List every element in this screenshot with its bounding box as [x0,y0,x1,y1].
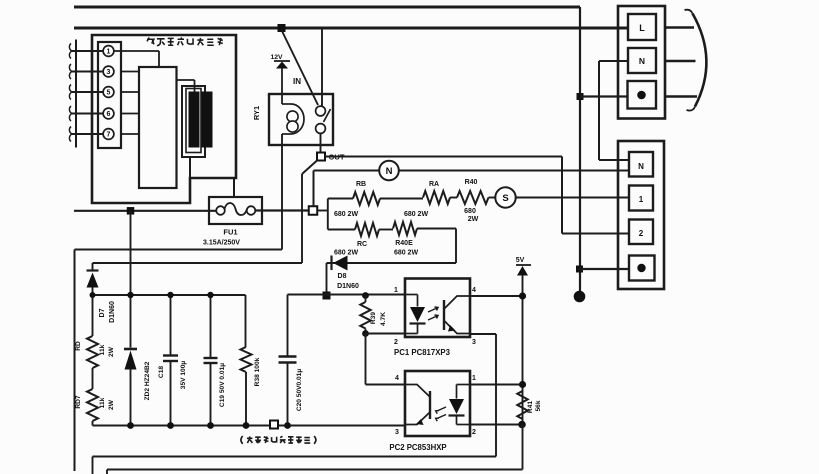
wire row1 c [450,197,457,199]
node N circle [379,161,399,181]
label PC1 PC817XP3 [394,348,451,357]
wire module to heater [177,80,195,92]
wire pin7 to module [121,133,139,135]
svg-text:4: 4 [472,287,476,294]
node OUT square [317,153,325,161]
wire entry lead 5 [69,127,102,142]
junction rail R38 [243,422,250,429]
svg-text:1: 1 [472,375,476,382]
resistor RA [423,191,450,204]
photocoupler PC2 box [405,371,470,436]
label R40 [465,179,478,186]
svg-text:PC2 PC853HXP: PC2 PC853HXP [389,443,446,452]
label R39 [370,312,377,324]
resistor R38 [241,347,252,372]
svg-text:R40E: R40E [395,240,413,247]
resistor RB [353,192,380,205]
svg-text:35V 100µ: 35V 100µ [180,361,187,390]
wire ground riser [579,7,581,296]
label R41 [527,401,534,413]
label C18 35V 100u [158,361,187,390]
5V supply arrow [516,265,531,276]
svg-text:1: 1 [107,49,111,56]
svg-text:R40: R40 [465,179,478,186]
wire PC1 pin2 to R39 [366,333,406,335]
12V supply arrow [274,61,290,69]
wire IN diagonal [282,30,319,105]
label D8 value D1N60 [337,283,359,290]
chassis ground blob [574,291,586,303]
label RY1 [252,106,261,120]
svg-text:680 2W: 680 2W [334,211,359,218]
PC1 phototransistor [444,296,470,334]
wire to CN1 earth terminal [580,95,627,97]
label 12V [270,54,283,61]
svg-text:2W: 2W [108,346,115,357]
wire row1 b [380,198,423,200]
wire row2 b [379,229,393,231]
junction rail C19 [207,422,214,429]
svg-text:RA: RA [429,181,439,188]
svg-text:680 2W: 680 2W [404,211,429,218]
photocoupler PC1 box [405,279,470,338]
svg-text:R38 100k: R38 100k [254,357,261,386]
junction R39 bottom [362,330,369,337]
svg-text:L: L [639,23,645,33]
wire neutral link CN1-CN2 [599,61,629,160]
connector CN1 outer box [618,6,665,119]
wire OUT to terminal2 run [325,157,629,234]
wire RD7 to rail [92,421,94,426]
wire S to terminal1 [516,197,629,199]
svg-text:RD7: RD7 [75,395,82,409]
junction C19/bus [207,292,213,298]
junction ZD2/bus [127,292,133,298]
label R40 value 2W [468,216,479,223]
svg-text:3: 3 [395,429,399,436]
cable hook earth [687,107,696,111]
svg-text:4.7K: 4.7K [380,312,387,326]
label FU1 [223,228,237,237]
wire entry lead 2 [69,64,102,79]
wire live bus [74,27,627,30]
label OUT [329,153,345,162]
wire left edge drop [74,250,76,472]
wire left entry bus [75,40,77,148]
svg-text:3.15A/250V: 3.15A/250V [203,240,240,247]
wire coil return [281,134,283,250]
label RD7 value 2W [108,399,115,410]
label RA value 680 2W [404,211,429,218]
zener ZD2 [124,349,137,426]
cluster unit box [92,35,236,203]
resistor R39 [360,296,370,334]
label RD value 2W [108,346,115,357]
cable hook L [685,10,693,14]
label ZD2 HZ24B2 [144,361,151,400]
wire D8 branch drop [326,263,328,296]
label IN [293,77,301,86]
junction bus/diode rail [90,292,96,298]
wire serial line [93,262,303,264]
wire L line top [74,6,580,9]
svg-text:RB: RB [356,181,366,188]
wire node riser [313,171,315,207]
junction rail C18 [167,422,174,429]
fuse FU1 symbol [216,203,255,215]
label R38 100k [254,357,261,386]
svg-text:D1N60: D1N60 [337,283,359,290]
svg-text:11k: 11k [99,397,106,408]
pin 1 circle [103,46,114,57]
svg-text:C20 50V0.01µ: C20 50V0.01µ [296,369,303,411]
wire 12V to coil [281,68,283,104]
wire ladder left rail [327,199,329,230]
wire CN1 N lead [599,60,627,62]
label cluster unit [147,38,223,46]
label RC [357,241,367,248]
svg-text:5V: 5V [516,257,525,264]
label C20 50V0.01u [296,369,303,411]
label D8 [338,273,347,280]
pin 3 circle [103,66,114,77]
svg-text:R41: R41 [527,401,534,413]
heater inner frame [186,89,201,153]
wire PC1 pin3 [470,334,496,457]
wire mains feed [74,210,217,212]
label RA [429,181,439,188]
pin 1 label PC2 [472,375,476,382]
wire R39 to PC2 pin4 [366,334,406,385]
terminal 1 [629,186,653,211]
label RD7 value 11k [99,397,106,408]
label C19 50V 0.01u [219,363,226,407]
wire neutral run [314,170,630,172]
wire to CN2 earth terminal [580,268,630,270]
connector CN2 outer box [618,141,664,289]
junction C18/bus [167,292,173,298]
diode D8 [332,256,348,271]
capacitor C20 [279,295,297,426]
terminal N (CN1) [628,48,656,73]
junction D8 branch / bus [323,292,331,300]
label RD7 [75,395,82,409]
junction CN2 ground tap [576,266,583,273]
wire PC2 pin2 to R41 [470,424,523,426]
wire R40 to S [489,197,496,199]
connector strip [98,42,121,148]
wire entry lead 1 [69,44,102,59]
junction R41 bottom [518,421,526,429]
capacitor C18 [163,295,178,426]
label PC2 PC853HXP [389,443,446,452]
wire contact to OUT [320,134,322,153]
terminal 2 [629,220,653,245]
node S circle [495,187,515,207]
resistor RD7 [87,389,98,421]
svg-text:PC1 PC817XP3: PC1 PC817XP3 [394,348,451,357]
fuse FU1 box [209,197,262,224]
svg-text:680 2W: 680 2W [394,250,419,257]
junction square on live bus [278,24,286,32]
wire 5V rail [522,275,524,425]
wire heater to fuse [190,157,234,197]
pin 6 circle [103,108,114,119]
svg-text:5: 5 [107,90,111,97]
wire R38 to rail [245,372,247,426]
wire ZD2 branch [130,211,132,348]
label D7 [99,308,106,317]
wire earth to cable [665,95,697,97]
svg-text:FU1: FU1 [223,228,237,237]
pin 4 label PC2 [395,375,399,382]
wire pin6 to module [121,113,139,115]
diode D7 [87,263,99,336]
wire serial out 1 [93,457,497,474]
terminal L [628,14,656,40]
PC2 phototransistor [405,385,430,426]
PC1 led [405,295,426,334]
svg-text:C19 50V 0.01µ: C19 50V 0.01µ [219,363,226,407]
wire dc bus left [93,294,246,296]
node AC input square [309,206,318,215]
wire PC1 pin4 to 5V [470,295,523,297]
wire node to ladder [317,210,328,212]
label RB [356,181,366,188]
wire row1 a [328,198,353,200]
svg-text:2: 2 [394,339,398,346]
wire serial out 2 [107,425,523,474]
wire coil return to left edge [75,249,283,251]
pin 7 circle [103,129,114,140]
svg-text:6: 6 [107,111,111,118]
wire fuse to node [255,209,309,211]
pin 2 label PC2 [472,429,476,436]
svg-text:3: 3 [107,69,111,76]
svg-text:ZD2 HZ24B2: ZD2 HZ24B2 [144,361,151,400]
junction rail ZD2 [127,422,134,429]
terminal earth (CN2) [629,256,655,281]
label 5V [516,257,525,264]
svg-text:D7: D7 [99,308,106,317]
wire entry lead 3 [69,85,102,100]
label RD [75,341,82,351]
svg-text:2: 2 [472,429,476,436]
label fuse rating 3.15A/250V [203,240,240,247]
junction 5V/pin4 [519,292,526,299]
label serial circuit [241,436,316,444]
svg-text:680: 680 [464,208,476,215]
resistor RD [87,336,98,368]
heater outer frame [182,86,205,157]
heater bar right [202,92,212,147]
resistor RC [355,223,379,236]
svg-text:RD: RD [75,341,82,351]
svg-text:N: N [639,56,645,66]
svg-text:1: 1 [394,287,398,294]
resistor R40E [393,222,417,235]
wire N to cable [665,60,696,62]
wire pin3 to module [121,71,139,73]
junction R39 top [362,292,369,299]
PC2 led [449,385,471,425]
wire entry lead 4 [69,106,102,121]
svg-text:3: 3 [472,339,476,346]
junction 5V/pin1 [519,381,526,388]
relay RY1 box [269,94,333,145]
capacitor C19 [204,295,218,426]
svg-text:IN: IN [293,77,301,86]
svg-text:12V: 12V [270,54,283,61]
wire L to cable [665,26,694,28]
PC2 light arrows [436,407,446,421]
svg-text:D1N60: D1N60 [109,301,116,323]
svg-text:2W: 2W [108,399,115,410]
wire D8 line [327,262,457,264]
pin 5 circle [103,87,114,98]
pin 2 label PC1 [394,339,398,346]
wire arm drop diagonal [302,161,317,175]
wire RD-RD7 [92,368,94,389]
PC1 light arrows [428,307,438,320]
svg-text:680 2W: 680 2W [334,250,359,257]
svg-text:D8: D8 [338,273,347,280]
resistor R41 [517,391,527,419]
node serial tap square [270,421,278,429]
wire row2 a [328,229,355,231]
svg-text:7: 7 [107,132,111,139]
relay contact upper [316,106,326,116]
pin 1 label PC1 [394,287,398,294]
label D7 value D1N60 [109,301,116,323]
junction fuse line / ZD2 branch [127,207,135,215]
relay coil [282,104,304,134]
svg-text:2W: 2W [468,216,479,223]
svg-text:C18: C18 [158,366,165,378]
pin 3 label PC2 [395,429,399,436]
svg-text:N: N [386,166,393,177]
svg-text:RY1: RY1 [252,106,261,120]
wire pin5 to module [121,91,139,93]
pin 3 label PC1 [472,339,476,346]
wire live to contact [321,28,323,107]
wire arm drop [301,174,303,263]
svg-text:11k: 11k [99,344,106,355]
wire ground rail [93,425,406,427]
svg-text:4: 4 [395,375,399,382]
svg-text:56k: 56k [535,400,542,411]
svg-text:S: S [502,193,508,204]
svg-text:N: N [638,162,644,171]
pin 4 label PC1 [472,287,476,294]
wire row2 to corner [417,229,456,264]
label R40E value 680 2W [394,250,419,257]
wire R38 branch [245,295,247,347]
label RD value 11k [99,344,106,355]
label R40 value 680 [464,208,476,215]
resistor R40 [457,191,488,204]
label RC value 680 2W [334,250,359,257]
relay contact lower [316,124,326,134]
junction rail C20 [284,422,291,429]
relay arm tick [324,109,331,122]
wire PC2 pin1 to 5V rail [470,384,523,386]
svg-text:2: 2 [639,229,644,238]
heater bar left [189,92,199,147]
svg-text:RC: RC [357,241,367,248]
terminal N (CN2) [629,152,653,177]
label R40E [395,240,413,247]
junction CN1 ground tap [577,93,584,100]
svg-text:R39: R39 [370,312,377,324]
mains cable arc [693,14,707,107]
label RB value 680 2W [334,211,359,218]
label R41 value 56k [535,400,542,411]
wire dc bus right [288,294,406,296]
wire pin1 to module [114,51,159,67]
label R39 value 4.7K [380,312,387,326]
svg-text:1: 1 [639,195,644,204]
terminal earth (CN1) [628,81,657,109]
cluster module box [139,67,177,188]
